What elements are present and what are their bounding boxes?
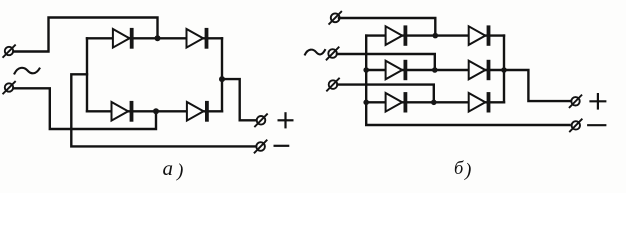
terminal minus output, circuit a — [255, 140, 267, 152]
node: right bus at row 2, circuit b — [501, 67, 507, 73]
diode VD9 (row 3 left, circuit b) — [386, 92, 408, 112]
wire: AC input 1 to top-branch midpoint of bridge a — [13, 18, 157, 52]
plus sign, circuit a — [279, 113, 293, 127]
wire: phase C to row-3 midpoint, circuit b — [337, 85, 433, 101]
svg-text:): ) — [176, 161, 183, 182]
minus sign, circuit b — [588, 124, 605, 126]
diode VD3 (bridge a, bottom left) — [112, 101, 134, 122]
terminal phase B input, circuit b — [327, 47, 339, 59]
node: left bus at row 3, circuit b — [363, 100, 369, 106]
wire: bridge a right rail — [221, 38, 223, 111]
diode VD7 (row 2 left, circuit b) — [386, 60, 408, 80]
minus sign, circuit a — [275, 145, 289, 147]
node: row-2 midpoint, circuit b — [432, 67, 438, 73]
diode VD8 (row 2 right, circuit b) — [469, 60, 491, 80]
wire: left rail to minus terminal, circuit a — [71, 74, 256, 146]
node: row-1 midpoint, circuit b — [433, 33, 439, 39]
wire: row 3, circuit b — [366, 101, 504, 103]
plus sign, circuit b — [591, 94, 606, 108]
node: left bus at row 2, circuit b — [363, 67, 369, 73]
svg-text:): ) — [464, 160, 471, 181]
node: top-branch midpoint, circuit a — [155, 35, 161, 41]
terminal phase A input, circuit b — [329, 12, 341, 24]
terminal plus output, circuit a — [255, 114, 267, 126]
svg-text:б: б — [454, 159, 464, 179]
diode VD10 (row 3 right, circuit b) — [469, 92, 491, 112]
wire: right bus, circuit b — [503, 36, 505, 103]
AC tilde symbol, circuit b — [305, 50, 325, 55]
diode VD1 (bridge a, top left) — [113, 28, 134, 49]
diode VD2 (bridge a, top right) — [187, 28, 209, 49]
wire: bridge a left rail — [86, 38, 88, 111]
label b) — [454, 159, 471, 181]
wire: right bus to plus terminal, circuit b — [504, 70, 571, 101]
wire: phase A to row-1 midpoint, circuit b — [339, 18, 435, 34]
diode VD6 (row 1 right, circuit b) — [469, 25, 491, 45]
AC tilde symbol, circuit a — [15, 68, 40, 74]
label a) — [163, 156, 184, 182]
node: bottom-branch midpoint, circuit a — [153, 108, 159, 114]
wire: left bus down to minus line, circuit b — [366, 36, 569, 125]
diode VD4 (bridge a, bottom right) — [187, 101, 209, 122]
wire: AC input 2 to bottom-branch midpoint of bridge a — [13, 88, 156, 129]
wire: right rail to plus terminal, circuit a — [222, 79, 256, 120]
terminal plus output, circuit b — [570, 95, 582, 107]
diode VD5 (row 1 left, circuit b) — [386, 25, 408, 45]
wire: bridge a top branch — [87, 37, 222, 39]
wire: row 2, circuit b — [366, 69, 504, 71]
terminal phase C input, circuit b — [327, 79, 339, 91]
wire: bridge a bottom branch — [87, 110, 222, 112]
node: plus takeoff on right rail, circuit a — [219, 76, 225, 82]
terminal minus output, circuit b — [570, 119, 582, 131]
terminal X2 (AC input 2, circuit a) — [3, 82, 15, 94]
wire: row 1, circuit b — [366, 34, 504, 36]
node: row-3 midpoint, circuit b — [431, 100, 437, 106]
svg-text:а: а — [163, 156, 174, 180]
terminal X1 (AC input 1, circuit a) — [3, 45, 15, 57]
wire: phase B to row-2 midpoint, circuit b — [337, 54, 435, 69]
